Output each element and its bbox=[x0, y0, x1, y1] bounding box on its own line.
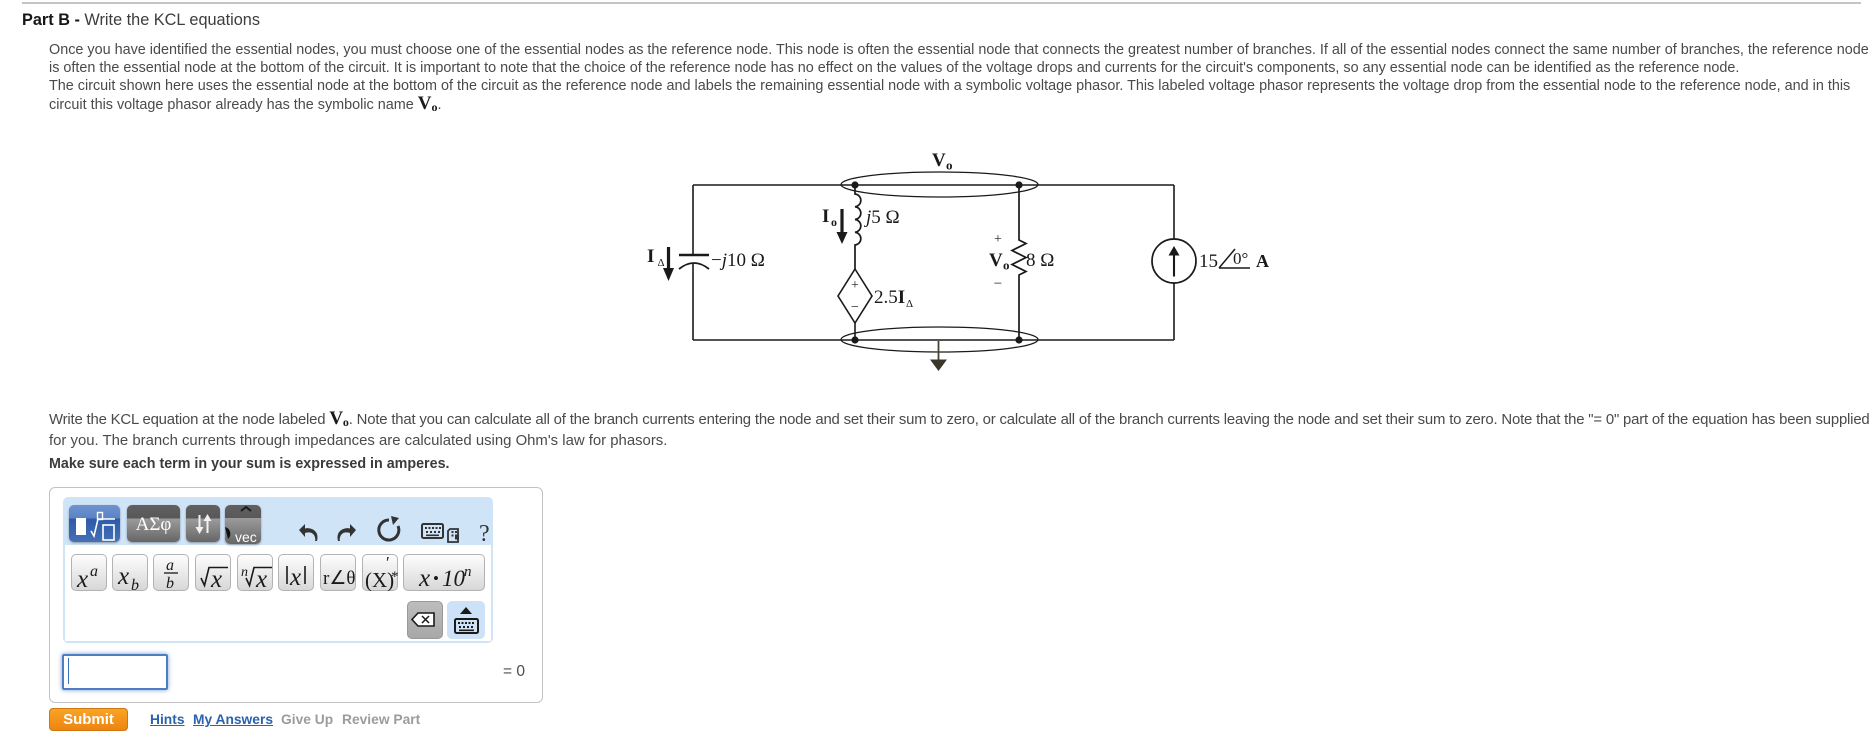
svg-text:−: − bbox=[994, 276, 1002, 292]
svg-text:8 Ω: 8 Ω bbox=[1026, 250, 1054, 271]
answer input box bbox=[62, 654, 168, 690]
svg-text:x: x bbox=[289, 564, 301, 591]
svg-text:I: I bbox=[822, 206, 829, 227]
math buttons row bbox=[0, 0, 1, 1]
ground stem bbox=[938, 341, 940, 360]
svg-text:o: o bbox=[831, 215, 837, 229]
toolbar icons: undo redo refresh keyboard help bbox=[295, 514, 491, 544]
svg-text:x: x bbox=[255, 566, 267, 591]
svg-text:a: a bbox=[90, 563, 98, 580]
svg-text:x: x bbox=[418, 565, 430, 591]
svg-text:•: • bbox=[433, 569, 439, 588]
submit button bbox=[49, 708, 128, 731]
node dot bottom-right bbox=[1015, 336, 1022, 343]
layout icon bbox=[448, 529, 458, 542]
CIRCUIT SVG placeholder bbox=[630, 140, 1290, 390]
wire left lower bbox=[692, 263, 694, 340]
wire top bbox=[693, 184, 1174, 186]
svg-text:V: V bbox=[932, 150, 946, 171]
svg-text:n: n bbox=[464, 564, 472, 580]
node dot top-right bbox=[1015, 181, 1022, 188]
svg-text:r∠θ: r∠θ bbox=[323, 568, 355, 589]
Part B title bbox=[22, 11, 260, 30]
redo icon bbox=[338, 524, 357, 541]
resistor 8ohm branch bbox=[1012, 185, 1026, 340]
backspace button bbox=[407, 601, 443, 639]
wire right lower bbox=[1173, 283, 1175, 340]
svg-text:10: 10 bbox=[442, 566, 466, 591]
= 0 bbox=[503, 663, 525, 681]
toolbar: greek button bbox=[127, 505, 180, 542]
svg-text:o: o bbox=[946, 158, 953, 173]
undo icon bbox=[299, 524, 318, 541]
toolbar: vec button bbox=[225, 505, 261, 544]
svg-text:+: + bbox=[994, 232, 1002, 247]
wire diamond to bottom bbox=[854, 323, 856, 340]
bold instruction bbox=[49, 456, 450, 472]
svg-text:A: A bbox=[1256, 251, 1269, 271]
node dot bottom-left bbox=[851, 336, 858, 343]
keyboard icon bbox=[422, 524, 443, 538]
top divider line bbox=[22, 2, 1861, 4]
svg-text:V: V bbox=[989, 250, 1003, 271]
lower paragraph bbox=[49, 408, 1870, 452]
I_o arrow bbox=[840, 209, 843, 233]
toolbar: updown button bbox=[186, 505, 220, 542]
svg-text:o: o bbox=[1003, 258, 1010, 273]
bottom node ellipse bbox=[841, 327, 1038, 352]
capacitor -j10 top plate bbox=[679, 254, 709, 256]
svg-text:Δ: Δ bbox=[906, 298, 913, 310]
current source circle bbox=[1152, 239, 1196, 283]
svg-text:a: a bbox=[166, 557, 174, 574]
wire bottom bbox=[693, 339, 1174, 341]
current source arrow bbox=[1173, 255, 1175, 277]
intro paragraph bbox=[49, 41, 1869, 114]
I_delta arrow bbox=[667, 247, 670, 269]
wire right upper bbox=[1173, 185, 1175, 239]
svg-text:I: I bbox=[647, 246, 654, 267]
top node ellipse bbox=[841, 172, 1038, 197]
inductor j5 coil bbox=[855, 185, 861, 269]
svg-text:x: x bbox=[117, 563, 129, 590]
answer container bbox=[49, 487, 543, 703]
svg-text:j5 Ω: j5 Ω bbox=[863, 207, 900, 228]
svg-text:Δ: Δ bbox=[658, 257, 665, 269]
links bbox=[150, 712, 185, 727]
svg-text:−: − bbox=[851, 300, 859, 315]
dependent source diamond bbox=[838, 269, 872, 323]
equation editor panel bbox=[63, 497, 493, 643]
capacitor -j10 curved plate bbox=[679, 263, 709, 269]
wire left upper bbox=[692, 185, 694, 255]
svg-text:n: n bbox=[241, 565, 248, 580]
svg-text:?: ? bbox=[479, 521, 490, 544]
svg-text:x: x bbox=[76, 566, 88, 591]
svg-text:b: b bbox=[131, 577, 139, 591]
toolbar: math mode button (blue, active) bbox=[69, 505, 120, 542]
svg-text:2.5I: 2.5I bbox=[874, 287, 905, 308]
svg-text:−j10 Ω: −j10 Ω bbox=[711, 250, 765, 271]
keyboard toggle button bbox=[447, 601, 485, 639]
svg-text:+: + bbox=[851, 278, 859, 293]
node dot top-left bbox=[851, 181, 858, 188]
svg-text:(X): (X) bbox=[365, 568, 394, 591]
svg-text:b: b bbox=[166, 575, 174, 591]
svg-text:vec: vec bbox=[235, 529, 257, 544]
svg-text:*: * bbox=[391, 569, 398, 585]
refresh icon bbox=[379, 520, 399, 540]
svg-text:15: 15 bbox=[1199, 251, 1218, 272]
svg-text:0°: 0° bbox=[1233, 249, 1248, 268]
ground triangle bbox=[930, 360, 947, 372]
svg-text:x: x bbox=[210, 566, 222, 591]
